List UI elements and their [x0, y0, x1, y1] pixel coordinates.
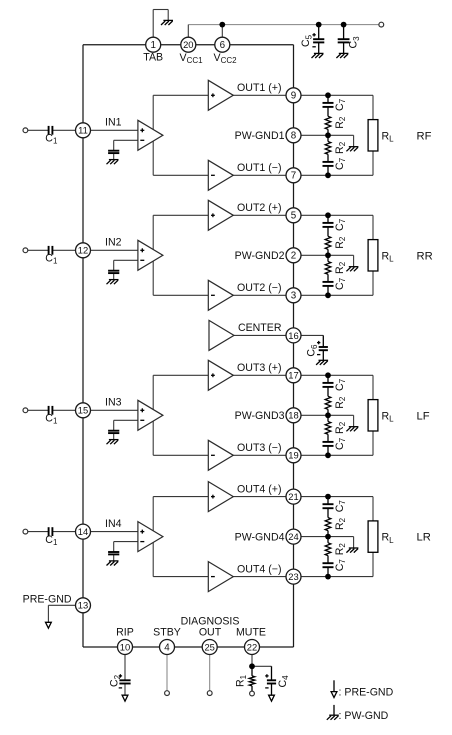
svg-text:5: 5: [291, 211, 297, 222]
svg-text:: PRE-GND: : PRE-GND: [339, 686, 394, 698]
svg-text:IN2: IN2: [105, 237, 122, 249]
svg-text:21: 21: [288, 491, 298, 502]
svg-text:1: 1: [150, 40, 155, 51]
svg-text:12: 12: [78, 245, 88, 256]
svg-text:17: 17: [288, 370, 298, 381]
svg-text:25: 25: [204, 641, 214, 652]
svg-text:OUT3 (+): OUT3 (+): [237, 362, 281, 374]
svg-text:: PW-GND: : PW-GND: [339, 710, 389, 722]
svg-text:PW-GND1: PW-GND1: [235, 130, 285, 142]
svg-text:20: 20: [183, 39, 193, 50]
svg-text:8: 8: [291, 131, 297, 142]
svg-text:OUT1 (+): OUT1 (+): [237, 82, 281, 94]
svg-text:STBY: STBY: [153, 627, 181, 639]
svg-text:OUT1 (−): OUT1 (−): [237, 162, 281, 174]
svg-text:2: 2: [291, 251, 296, 262]
svg-text:7: 7: [291, 171, 296, 182]
svg-text:IN4: IN4: [105, 518, 122, 530]
svg-text:CENTER: CENTER: [238, 322, 282, 334]
svg-text:LF: LF: [417, 410, 430, 422]
svg-text:OUT4 (+): OUT4 (+): [237, 483, 281, 495]
svg-text:IN1: IN1: [105, 117, 122, 129]
svg-text:OUT2 (+): OUT2 (+): [237, 202, 281, 214]
svg-text:24: 24: [288, 531, 298, 542]
svg-text:18: 18: [288, 410, 298, 421]
svg-text:11: 11: [78, 125, 88, 136]
svg-text:13: 13: [78, 600, 88, 611]
svg-text:PW-GND3: PW-GND3: [235, 410, 285, 422]
svg-text:IN3: IN3: [105, 397, 122, 409]
svg-text:10: 10: [120, 641, 130, 652]
svg-text:PW-GND2: PW-GND2: [235, 250, 285, 262]
svg-text:PRE-GND: PRE-GND: [23, 594, 72, 606]
svg-text:23: 23: [288, 571, 298, 582]
svg-text:6: 6: [220, 40, 226, 51]
svg-text:OUT4 (−): OUT4 (−): [237, 563, 281, 575]
svg-text:15: 15: [78, 405, 88, 416]
svg-text:MUTE: MUTE: [236, 627, 266, 639]
svg-text:3: 3: [291, 291, 297, 302]
svg-text:19: 19: [288, 450, 298, 461]
svg-text:14: 14: [78, 526, 88, 537]
svg-text:4: 4: [164, 642, 170, 653]
svg-text:LR: LR: [417, 532, 431, 544]
svg-text:OUT: OUT: [199, 627, 222, 639]
svg-text:16: 16: [288, 330, 298, 341]
svg-text:22: 22: [247, 641, 257, 652]
svg-text:RR: RR: [417, 250, 433, 262]
svg-text:OUT2 (−): OUT2 (−): [237, 282, 281, 294]
svg-text:PW-GND4: PW-GND4: [235, 531, 285, 543]
svg-text:9: 9: [291, 91, 296, 102]
svg-text:RF: RF: [417, 130, 432, 142]
svg-text:OUT3 (−): OUT3 (−): [237, 442, 281, 454]
svg-text:TAB: TAB: [143, 51, 163, 63]
svg-text:RIP: RIP: [116, 627, 134, 639]
